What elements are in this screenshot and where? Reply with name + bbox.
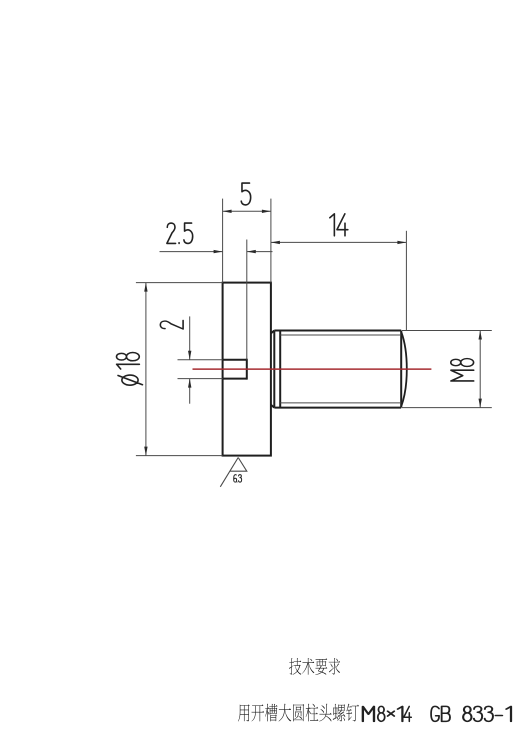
dimension phi18 head diameter — [117, 283, 223, 456]
title text 用开槽大圆柱头螺钉M8×14 GB 833-1 — [238, 704, 511, 722]
thread minor diameter lines — [280, 335, 401, 403]
dimension 5 head height — [223, 183, 271, 282]
surface finish symbol 6.3 — [220, 458, 247, 487]
dimension 2 slot width — [160, 316, 222, 403]
shaft outline — [271, 331, 401, 408]
dimension 2.5 slot depth — [160, 223, 273, 360]
thread end chamfer arc — [401, 332, 407, 407]
head slot — [223, 359, 247, 380]
note text 技术要求 — [289, 658, 340, 675]
dimension 14 thread length — [271, 214, 407, 331]
screw head outline — [223, 283, 271, 456]
dimension M8 thread — [402, 331, 492, 408]
red center line — [193, 368, 432, 370]
